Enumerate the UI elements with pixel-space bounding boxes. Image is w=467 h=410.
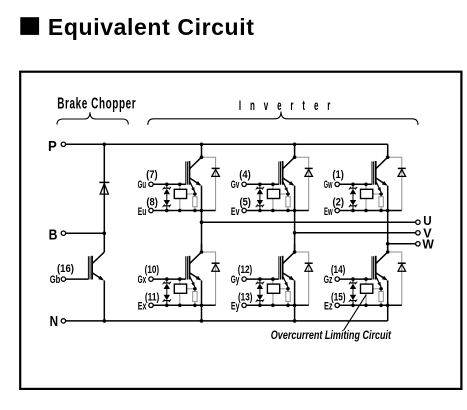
svg-text:Gu: Gu [138, 179, 147, 191]
svg-text:Equivalent Circuit: Equivalent Circuit [48, 14, 254, 40]
svg-text:(4): (4) [239, 169, 251, 181]
svg-text:Ex: Ex [138, 301, 147, 313]
svg-text:Inverter: Inverter [239, 99, 339, 114]
svg-text:Overcurrent Limiting Circuit: Overcurrent Limiting Circuit [271, 328, 392, 342]
svg-text:(5): (5) [239, 197, 251, 209]
svg-text:(16): (16) [57, 263, 74, 275]
svg-text:Gx: Gx [138, 274, 147, 286]
svg-text:Ez: Ez [324, 301, 333, 313]
svg-text:Gz: Gz [324, 274, 333, 286]
svg-text:(7): (7) [146, 169, 158, 181]
svg-text:(14): (14) [331, 264, 346, 276]
svg-text:Ey: Ey [231, 301, 240, 313]
svg-text:Gv: Gv [231, 179, 240, 191]
svg-text:Gb: Gb [50, 274, 61, 286]
svg-text:W: W [422, 237, 434, 252]
svg-text:Gy: Gy [231, 274, 240, 286]
svg-text:(11): (11) [145, 292, 160, 304]
svg-text:(15): (15) [331, 292, 346, 304]
svg-text:Gw: Gw [324, 179, 333, 191]
svg-text:(12): (12) [238, 264, 253, 276]
svg-text:Brake Chopper: Brake Chopper [57, 94, 136, 112]
svg-text:P: P [48, 138, 57, 155]
svg-text:N: N [50, 313, 59, 330]
svg-text:(8): (8) [146, 197, 158, 209]
svg-text:Ev: Ev [231, 206, 240, 218]
svg-text:(10): (10) [145, 264, 160, 276]
svg-text:(13): (13) [238, 292, 253, 304]
svg-text:Ew: Ew [324, 206, 333, 218]
svg-text:(2): (2) [333, 197, 345, 209]
svg-text:Eu: Eu [138, 206, 147, 218]
svg-text:B: B [49, 227, 58, 244]
svg-text:(1): (1) [332, 169, 344, 181]
